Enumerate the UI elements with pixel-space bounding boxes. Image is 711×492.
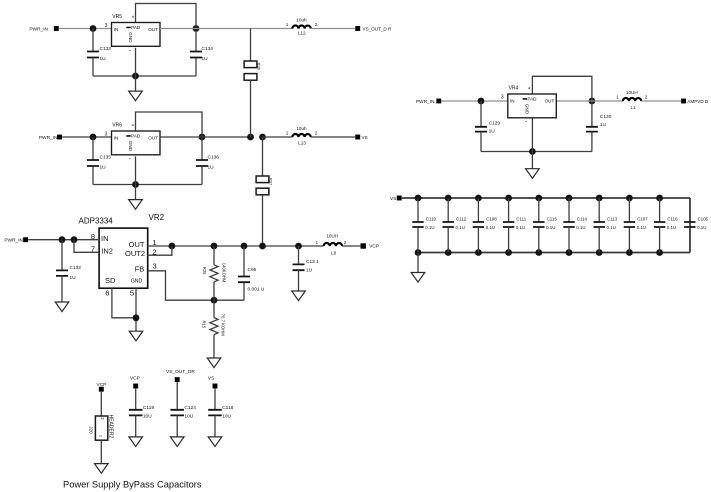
svg-text:0.001 U: 0.001 U [248, 287, 265, 293]
svg-text:VR6: VR6 [112, 123, 122, 129]
svg-text:PWR_IN: PWR_IN [29, 27, 48, 33]
svg-text:C110: C110 [426, 216, 437, 221]
svg-text:VCP: VCP [369, 244, 379, 250]
svg-text:1: 1 [286, 131, 289, 136]
svg-text:FB: FB [135, 265, 145, 274]
svg-text:10U: 10U [222, 414, 231, 420]
svg-text:0.1U: 0.1U [425, 225, 434, 230]
svg-text:PWR_IN: PWR_IN [4, 238, 23, 244]
svg-text:2: 2 [315, 131, 318, 136]
svg-text:AMPVD D: AMPVD D [687, 99, 709, 104]
svg-text:HEADER2: HEADER2 [108, 415, 114, 439]
svg-text:ADP3334: ADP3334 [79, 217, 114, 226]
svg-text:R37: R37 [269, 178, 274, 186]
svg-text:IN: IN [101, 234, 109, 243]
svg-text:IN2: IN2 [101, 246, 113, 255]
svg-text:VS: VS [208, 375, 214, 381]
svg-text:0.1U: 0.1U [456, 225, 465, 230]
svg-text:VS: VS [362, 135, 368, 140]
svg-text:1U: 1U [100, 165, 107, 171]
svg-text:R25: R25 [202, 267, 207, 275]
svg-text:3: 3 [501, 94, 504, 100]
svg-text:-: - [129, 157, 131, 163]
svg-text:10uh: 10uh [296, 18, 307, 23]
svg-text:2: 2 [344, 240, 347, 245]
svg-text:PWR_IN: PWR_IN [39, 135, 58, 141]
svg-text:C118: C118 [222, 405, 233, 411]
svg-text:6: 6 [105, 289, 109, 298]
svg-text:1: 1 [616, 95, 619, 100]
svg-text:OUT: OUT [545, 99, 555, 104]
svg-text:0.1U: 0.1U [576, 225, 585, 230]
svg-text:C105: C105 [698, 216, 709, 221]
svg-text:L13: L13 [298, 141, 306, 146]
svg-text:PAD: PAD [527, 96, 537, 101]
svg-text:C130: C130 [600, 114, 612, 120]
svg-text:R15: R15 [201, 321, 206, 329]
svg-text:PAD: PAD [131, 133, 141, 138]
svg-text:10UH: 10UH [626, 90, 638, 95]
svg-text:IN: IN [114, 136, 119, 141]
svg-text:0.1U: 0.1U [667, 225, 676, 230]
svg-text:VR2: VR2 [149, 213, 165, 222]
svg-text:IN: IN [114, 27, 119, 32]
svg-text:2: 2 [645, 95, 648, 100]
svg-text:10UH: 10UH [326, 233, 338, 238]
svg-text:C113: C113 [607, 216, 618, 221]
svg-text:C133: C133 [100, 46, 112, 52]
svg-text:0.1U: 0.1U [486, 225, 495, 230]
svg-text:C108: C108 [486, 216, 497, 221]
svg-text:1U: 1U [100, 56, 107, 62]
svg-text:C132: C132 [70, 265, 82, 271]
svg-text:OUT: OUT [148, 27, 158, 32]
svg-text:-: - [129, 48, 131, 54]
svg-text:J20: J20 [88, 426, 93, 434]
svg-text:5: 5 [130, 289, 134, 298]
svg-text:0.1U: 0.1U [516, 225, 525, 230]
svg-text:C115: C115 [547, 216, 558, 221]
svg-text:VS: VS [390, 196, 396, 201]
svg-text:3: 3 [105, 23, 108, 29]
svg-text:0.1U: 0.1U [607, 225, 616, 230]
svg-text:OUT: OUT [129, 240, 145, 249]
svg-text:GND: GND [128, 141, 133, 152]
svg-text:VR5: VR5 [112, 14, 122, 20]
svg-text:VCP: VCP [130, 375, 140, 381]
svg-text:VR4: VR4 [509, 86, 519, 92]
svg-text:L8: L8 [331, 250, 337, 255]
svg-text:SD: SD [105, 276, 116, 285]
svg-text:10uh: 10uh [296, 126, 307, 131]
svg-text:OUT2: OUT2 [125, 249, 145, 258]
svg-text:VS_OUT_DR: VS_OUT_DR [166, 369, 195, 375]
svg-text:0.1U: 0.1U [697, 225, 706, 230]
svg-text:C111: C111 [516, 216, 526, 221]
svg-text:8: 8 [91, 232, 95, 241]
svg-text:C124: C124 [184, 405, 196, 411]
svg-text:C13 1: C13 1 [306, 259, 319, 265]
svg-text:R36: R36 [257, 63, 262, 71]
svg-text:PAD: PAD [131, 25, 141, 30]
svg-text:7: 7 [91, 244, 95, 253]
svg-text:10U: 10U [143, 414, 152, 420]
svg-text:0.1U: 0.1U [546, 225, 555, 230]
svg-text:10U: 10U [184, 414, 193, 420]
svg-text:PWR_IN: PWR_IN [416, 99, 435, 105]
svg-text:1: 1 [99, 435, 103, 437]
svg-text:L1: L1 [630, 105, 636, 110]
svg-text:C119: C119 [143, 405, 154, 411]
svg-text:VS_OUT_D R: VS_OUT_D R [363, 27, 393, 32]
svg-text:3: 3 [153, 262, 157, 271]
svg-text:1U: 1U [600, 122, 607, 128]
svg-text:C107: C107 [637, 216, 648, 221]
svg-text:Power Supply ByPass Capacitors: Power Supply ByPass Capacitors [63, 479, 202, 489]
svg-text:C134: C134 [202, 46, 214, 52]
svg-text:GND: GND [131, 278, 143, 284]
svg-text:1U: 1U [202, 56, 209, 62]
svg-text:C136: C136 [208, 155, 220, 161]
svg-text:L12: L12 [298, 30, 306, 35]
svg-text:1U: 1U [208, 165, 215, 171]
svg-text:IN: IN [510, 99, 515, 104]
svg-text:C116: C116 [667, 216, 678, 221]
svg-text:0.1U: 0.1U [637, 225, 646, 230]
svg-text:1: 1 [286, 22, 289, 27]
svg-text:C129: C129 [489, 120, 501, 126]
svg-text:1U: 1U [489, 129, 496, 135]
svg-text:C135: C135 [100, 155, 112, 161]
svg-text:2: 2 [315, 22, 318, 27]
svg-text:C95: C95 [248, 267, 257, 273]
svg-text:1: 1 [316, 240, 319, 245]
svg-text:140KOHM: 140KOHM [222, 263, 227, 283]
svg-text:C114: C114 [577, 216, 588, 221]
svg-text:OUT: OUT [148, 136, 158, 141]
svg-text:3: 3 [105, 131, 108, 137]
svg-text:GND: GND [524, 104, 529, 115]
svg-text:-: - [525, 120, 527, 126]
svg-text:C112: C112 [456, 216, 467, 221]
svg-text:76.7 KOHM: 76.7 KOHM [221, 314, 226, 336]
svg-text:1U: 1U [306, 267, 313, 273]
svg-text:GND: GND [128, 32, 133, 43]
svg-text:1U: 1U [70, 275, 77, 281]
